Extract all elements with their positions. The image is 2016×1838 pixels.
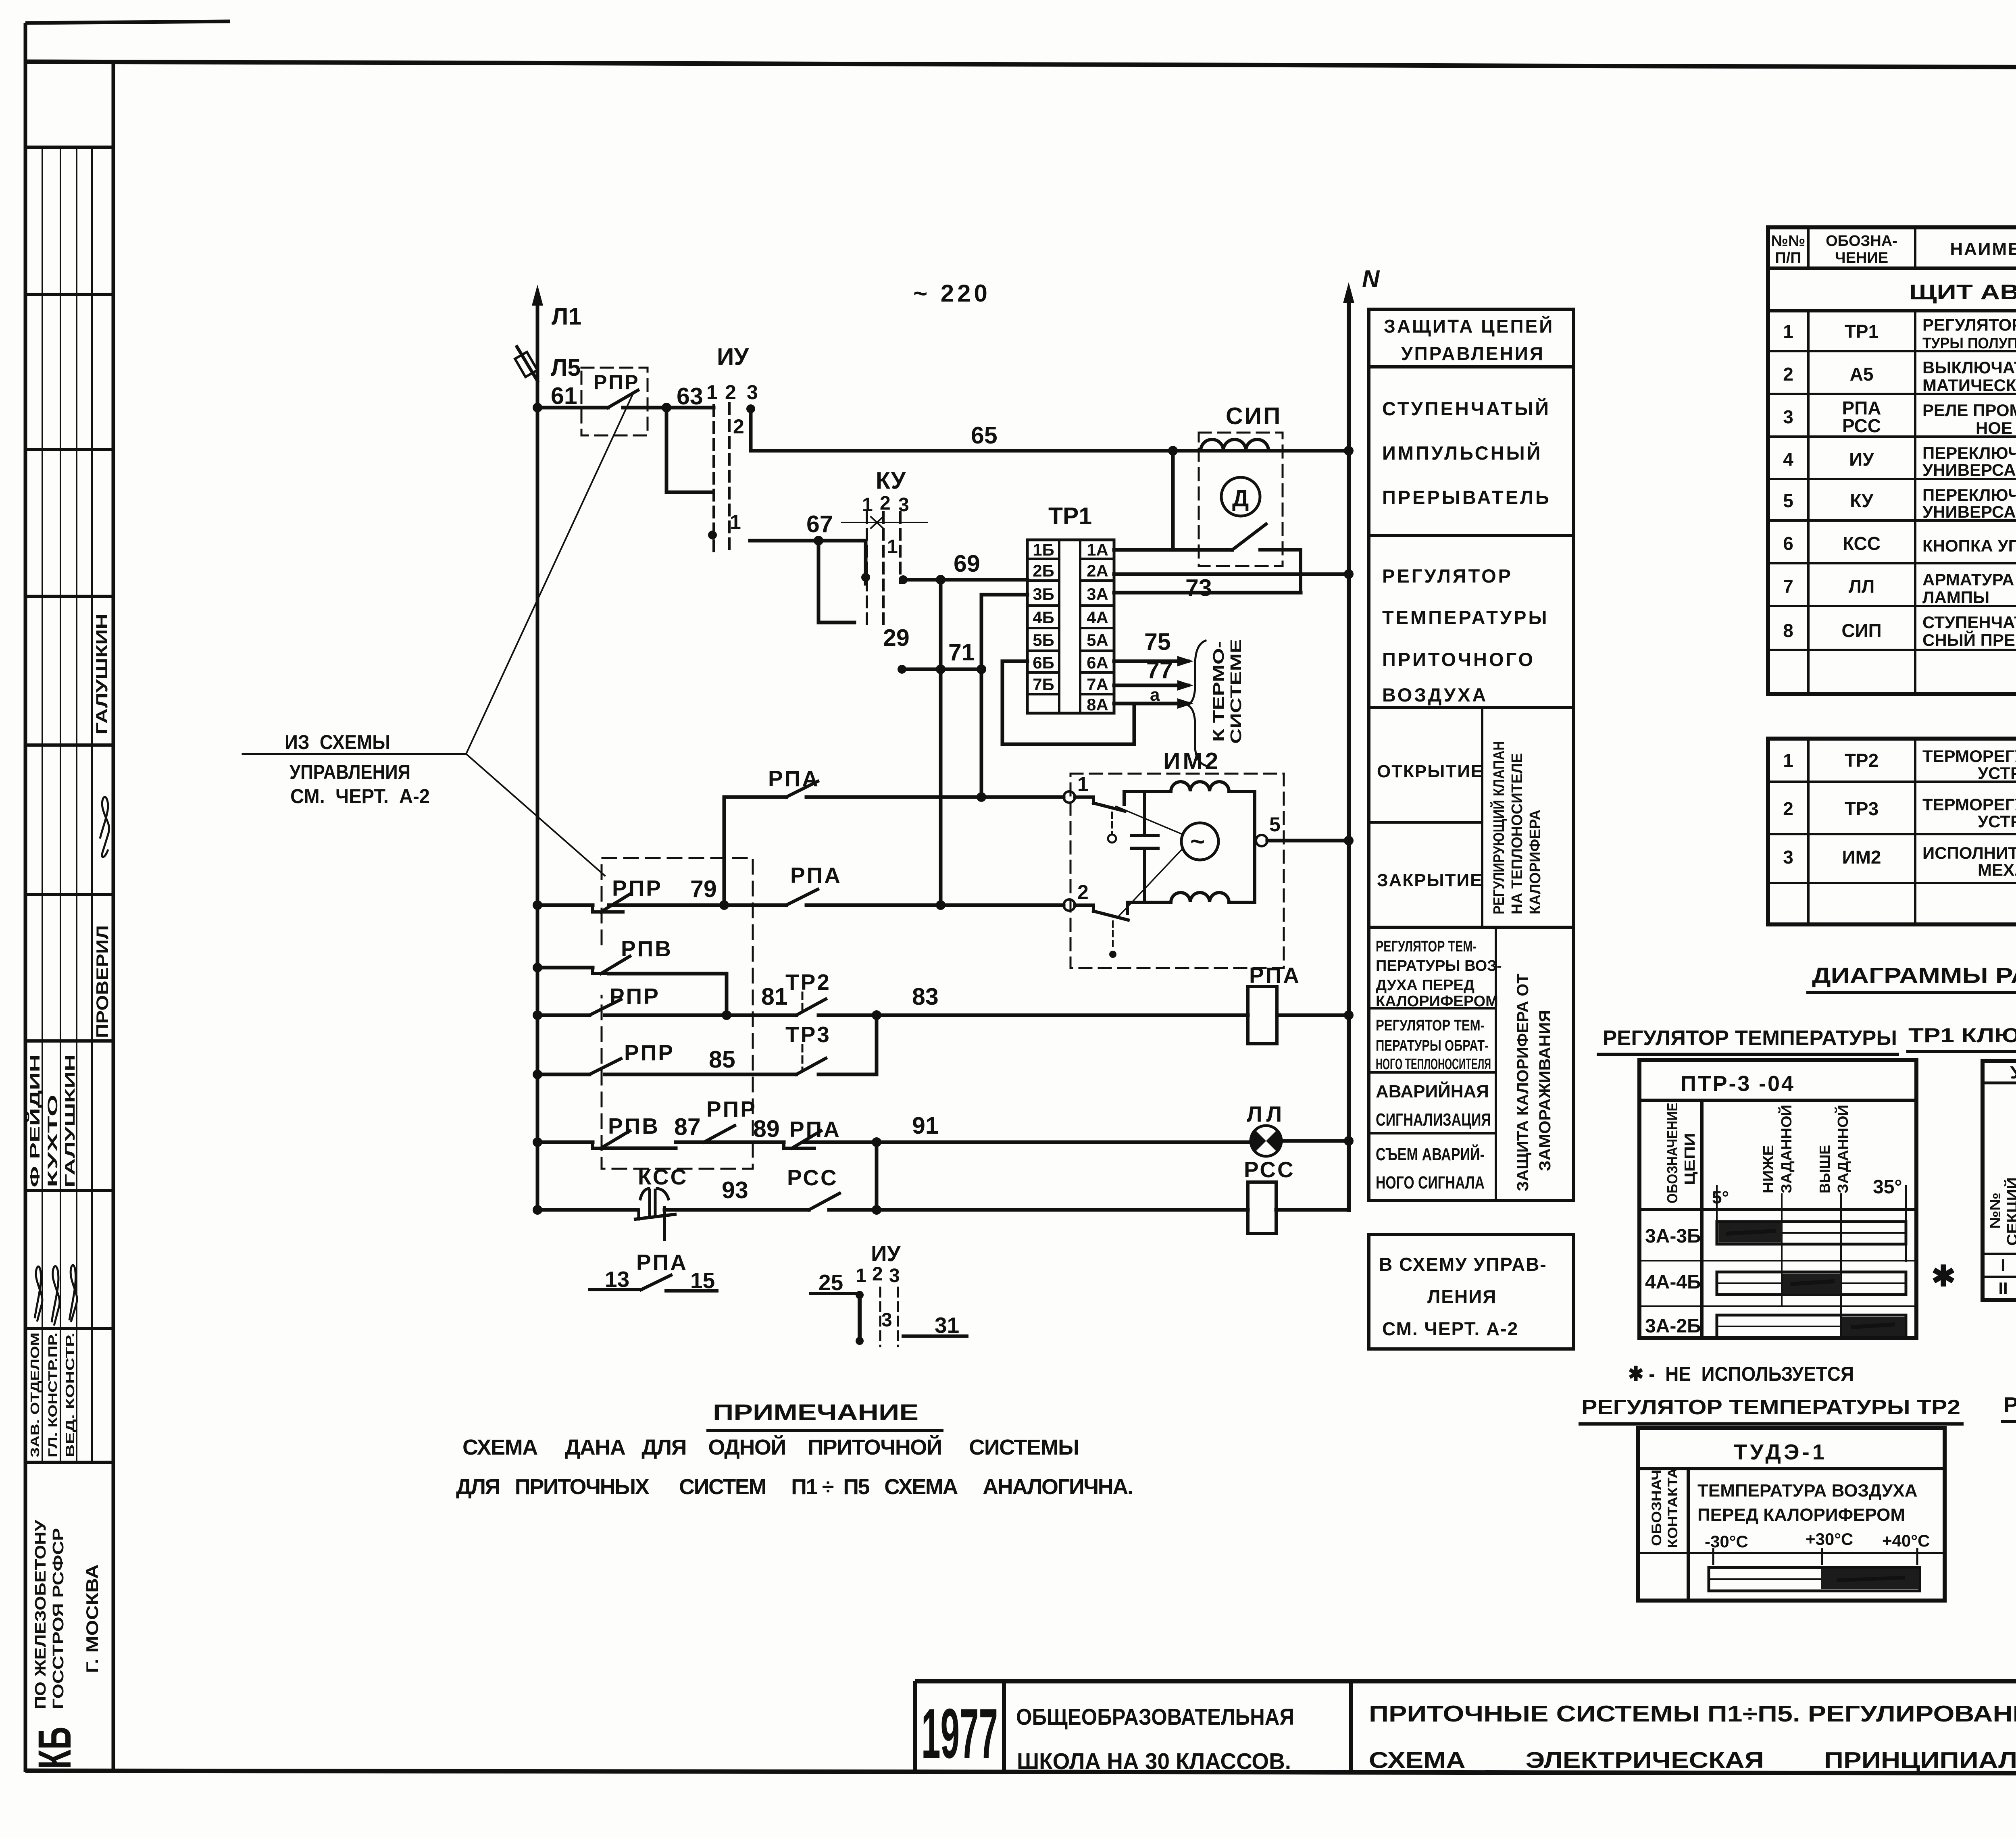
branch row1-row2 [723, 797, 726, 905]
svg-text:3: 3 [747, 381, 758, 404]
svg-text:65: 65 [971, 422, 998, 449]
svg-text:ИСПОЛНИТЕЛЬНЫЙ: ИСПОЛНИТЕЛЬНЫЙ [1922, 843, 2016, 862]
svg-text:ПО ЖЕЛЕЗОБЕТОНУ: ПО ЖЕЛЕЗОБЕТОНУ [32, 1520, 49, 1709]
heading regulator TR3 [2001, 1393, 2016, 1422]
local table row IM2 [1783, 840, 2016, 887]
svg-text:ЧЕНИЕ: ЧЕНИЕ [1835, 250, 1888, 266]
svg-text:РЕЛЕ ПРОМЕЖУТОЧ-: РЕЛЕ ПРОМЕЖУТОЧ- [1922, 401, 2016, 420]
svg-text:ЛЛ: ЛЛ [1849, 576, 1875, 597]
svg-text:КУ: КУ [1850, 490, 1874, 511]
svg-text:ШКОЛА НА 30 КЛАССОВ.: ШКОЛА НА 30 КЛАССОВ. [1017, 1748, 1291, 1774]
wire 69 [903, 578, 1027, 582]
svg-text:ГЛ. КОНСТР.ПР.: ГЛ. КОНСТР.ПР. [46, 1332, 60, 1457]
svg-text:РПВ: РПВ [608, 1114, 660, 1139]
svg-text:5°: 5° [1712, 1188, 1729, 1207]
local table grid [1768, 739, 2016, 924]
svg-text:К ТЕРМО-: К ТЕРМО- [1210, 641, 1227, 742]
svg-text:РПА: РПА [636, 1250, 688, 1275]
TR2 bar [1709, 1567, 1920, 1591]
svg-text:ПЕРАТУРЫ ОБРАТ-: ПЕРАТУРЫ ОБРАТ- [1376, 1037, 1489, 1054]
function box: valve open/close [1369, 708, 1574, 927]
svg-text:ЗАМОРАЖИВАНИЯ: ЗАМОРАЖИВАНИЯ [1536, 1010, 1554, 1171]
svg-text:7А: 7А [1087, 675, 1108, 694]
svg-text:ТР3: ТР3 [1845, 798, 1879, 819]
svg-text:I: I [2001, 1255, 2006, 1274]
function box: to control diagram [1369, 1234, 1574, 1349]
svg-text:ТЕМПЕРАТУРЫ: ТЕМПЕРАТУРЫ [1382, 607, 1549, 628]
svg-text:УПРАВЛЕНИЯ: УПРАВЛЕНИЯ [1401, 343, 1545, 364]
svg-text:ПРИТОЧНЫЕ СИСТЕМЫ П1÷П5. Р: ПРИТОЧНЫЕ СИСТЕМЫ П1÷П5. РЕГУЛИРОВАНИЕ. [1369, 1701, 2016, 1727]
function box: step impulse interrupter [1369, 367, 1574, 535]
branch row4-row5 [875, 1015, 879, 1074]
svg-text:1: 1 [887, 536, 898, 558]
wire jog down to IU pin1 lower [666, 408, 712, 492]
contact RPA row2 [786, 863, 842, 905]
wire 3B branch [981, 595, 1027, 797]
svg-text:НОГО ТЕПЛОНОСИТЕЛЯ: НОГО ТЕПЛОНОСИТЕЛЯ [1376, 1056, 1491, 1073]
svg-text:МАТИЧЕСКИЙ: МАТИЧЕСКИЙ [1922, 375, 2016, 395]
svg-text:75: 75 [1144, 629, 1171, 655]
svg-text:ВЫКЛЮЧАТЕЛЬ АВТО-: ВЫКЛЮЧАТЕЛЬ АВТО- [1922, 358, 2016, 377]
stamp column grid [25, 62, 113, 1771]
svg-text:КНОПКА УПРАВЛЕНИЯ: КНОПКА УПРАВЛЕНИЯ [1922, 536, 2016, 555]
svg-text:+30°С: +30°С [1806, 1530, 1853, 1549]
svg-text:СЪЕМ АВАРИЙ-: СЪЕМ АВАРИЙ- [1376, 1144, 1485, 1164]
svg-text:РПА: РПА [1249, 963, 1301, 988]
svg-text:ЗАДАННОЙ: ЗАДАННОЙ [1778, 1105, 1795, 1193]
wire IM2 pin5 to N [1267, 839, 1349, 843]
svg-text:КУ: КУ [876, 467, 906, 494]
svg-text:РПР: РПР [594, 371, 640, 393]
svg-text:1: 1 [1783, 750, 1793, 771]
svg-text:6Б: 6Б [1033, 653, 1054, 672]
svg-text:ИМПУЛЬСНЫЙ: ИМПУЛЬСНЫЙ [1382, 442, 1542, 464]
svg-text:93: 93 [722, 1177, 748, 1203]
svg-text:1: 1 [730, 511, 741, 533]
relay contact RPR (dashed box) [581, 368, 666, 435]
wire row4 [537, 1014, 1248, 1017]
IM2 linkage lines [1116, 806, 1183, 916]
IU dashed contact line 2 [728, 403, 731, 552]
svg-text:ИМ2: ИМ2 [1163, 748, 1220, 774]
contact RPA row1 [768, 766, 820, 797]
svg-text:СХЕМА ДАНА ДЛЯ ОДНОЙ: СХЕМА ДАНА ДЛЯ ОДНОЙ ПРИТОЧНОЙ СИСТЕМЫ [462, 1435, 1079, 1459]
svg-text:ВЕД. КОНСТР.: ВЕД. КОНСТР. [63, 1332, 77, 1457]
svg-text:5: 5 [1783, 490, 1793, 511]
svg-text:73: 73 [1185, 575, 1212, 601]
contact RSS row7 [787, 1165, 839, 1210]
svg-text:РЕГУЛЯТОР ТЕМПЕРАТУРЫ ТР2: РЕГУЛЯТОР ТЕМПЕРАТУРЫ ТР2 [1581, 1396, 1960, 1419]
IM2 upper contact dashed stem [1108, 812, 1116, 843]
signal lamp LL [1247, 1101, 1354, 1156]
svg-text:ЗАКРЫТИЕ: ЗАКРЫТИЕ [1377, 870, 1483, 890]
svg-text:Л5: Л5 [551, 354, 581, 381]
contact RPR row4 [589, 984, 660, 1015]
svg-text:15: 15 [690, 1268, 715, 1293]
svg-text:АРМАТУРА СИГНАЛЬНОЙ: АРМАТУРА СИГНАЛЬНОЙ [1922, 570, 2016, 589]
SIP motor circle D [1221, 477, 1260, 516]
wire 71 [902, 668, 981, 671]
svg-text:ИУ: ИУ [1849, 449, 1874, 470]
TR1 pin labels A column [1087, 540, 1108, 714]
table rows names [1922, 315, 2016, 649]
wire 3A [1114, 591, 1301, 595]
svg-text:2Б: 2Б [1033, 561, 1054, 580]
svg-text:3: 3 [889, 1265, 900, 1286]
contact RPA row6 [784, 1117, 841, 1148]
svg-text:РПР: РПР [706, 1097, 757, 1122]
svg-text:РПА: РПА [790, 863, 842, 888]
svg-text:Л1: Л1 [552, 303, 581, 330]
KU jog path [818, 541, 854, 622]
svg-text:4: 4 [1783, 449, 1793, 470]
wire row6 [537, 1142, 1252, 1148]
svg-text:ПРЕРЫВАТЕЛЬ: ПРЕРЫВАТЕЛЬ [1382, 487, 1551, 508]
stamp signature upper [100, 797, 109, 857]
svg-text:А5: А5 [1850, 364, 1874, 385]
svg-text:35°: 35° [1873, 1176, 1902, 1198]
svg-text:ПЕРАТУРЫ ВОЗ-: ПЕРАТУРЫ ВОЗ- [1376, 958, 1502, 974]
svg-text:ГАЛУШКИН: ГАЛУШКИН [93, 614, 111, 735]
svg-text:КУХТО: КУХТО [45, 1095, 60, 1187]
svg-text:ТР1: ТР1 [1048, 503, 1092, 529]
svg-text:УП 5311- А225: УП 5311- А225 [2010, 1063, 2016, 1082]
svg-text:7: 7 [1783, 576, 1793, 597]
svg-text:ГАЛУШКИН: ГАЛУШКИН [62, 1054, 78, 1187]
svg-text:1: 1 [856, 1265, 866, 1286]
svg-text:ПРИТОЧНОГО: ПРИТОЧНОГО [1382, 649, 1535, 670]
annotation iz shemy [243, 392, 634, 876]
function box: protection of control circuits [1369, 309, 1574, 367]
svg-text:РСС: РСС [1842, 415, 1881, 436]
IM2 motor [1181, 823, 1218, 860]
svg-text:N: N [1362, 265, 1380, 292]
breaker A5 on bus [515, 347, 537, 381]
svg-text:-30°С: -30°С [1705, 1532, 1748, 1551]
svg-text:ТЕРМОРЕГУЛИРУЮЩЕЕ: ТЕРМОРЕГУЛИРУЮЩЕЕ [1922, 795, 2016, 814]
svg-text:УПРАВЛЕНИЯ: УПРАВЛЕНИЯ [289, 761, 410, 783]
svg-text:ЗАЩИТА КАЛОРИФЕРА ОТ: ЗАЩИТА КАЛОРИФЕРА ОТ [1514, 974, 1532, 1191]
TR1 pin labels B column [1033, 540, 1054, 694]
svg-text:8: 8 [1783, 620, 1793, 641]
relay coil RSS [1244, 1157, 1349, 1234]
function box: freeze protection group [1369, 927, 1574, 1201]
pushbutton KSS [635, 1164, 688, 1239]
svg-text:ИЗ СХЕМЫ: ИЗ СХЕМЫ [285, 731, 390, 754]
svg-text:4А-4Б: 4А-4Б [1645, 1272, 1701, 1293]
svg-text:КАЛОРИФЕРА: КАЛОРИФЕРА [1527, 810, 1544, 914]
svg-text:НОГО СИГНАЛА: НОГО СИГНАЛА [1376, 1173, 1485, 1193]
paper edge line top-left [25, 21, 230, 23]
svg-text:РЕГУЛЯТОР ТЕМПЕРАТУРЫ ТР3: РЕГУЛЯТОР ТЕМПЕРАТУРЫ ТР3 [2004, 1393, 2016, 1417]
PTR bar row1 [1717, 1222, 1906, 1244]
IU dashed contact line 1 [712, 405, 715, 552]
svg-text:ТЕРМОРЕГУЛИРУЮЩЕЕ: ТЕРМОРЕГУЛИРУЮЩЕЕ [1922, 747, 2016, 766]
svg-text:25: 25 [818, 1270, 843, 1295]
IM2 lower contact dashed stem [1109, 921, 1116, 958]
svg-text:Д: Д [1232, 485, 1249, 512]
svg-text:ОБЩЕОБРАЗОВАТЕЛЬНАЯ: ОБЩЕОБРАЗОВАТЕЛЬНАЯ [1016, 1704, 1294, 1730]
svg-text:ДЛЯ ПРИТОЧНЫХ СИСТЕМ: ДЛЯ ПРИТОЧНЫХ СИСТЕМ П1 ÷ П5 СХЕМА АНАЛО… [456, 1475, 1133, 1499]
stamp signature row 3 [69, 1265, 77, 1322]
wire row5 [537, 1073, 877, 1076]
svg-text:РПР: РПР [624, 1040, 675, 1065]
svg-text:69: 69 [954, 550, 980, 577]
contact RPR row6 [704, 1097, 757, 1142]
IM2 pin 2 [1064, 881, 1089, 911]
branch row6-row7 [875, 1142, 879, 1210]
svg-text:ДИАГРАММЫ РАБОТЫ КОНТАКТОВ: ДИАГРАММЫ РАБОТЫ КОНТАКТОВ [1812, 964, 2016, 988]
svg-text:ЛАМПЫ: ЛАМПЫ [1922, 588, 1989, 607]
svg-text:ВЫШЕ: ВЫШЕ [1816, 1145, 1833, 1193]
svg-text:ЛЛ: ЛЛ [1247, 1101, 1286, 1126]
terminal block TR1 [1027, 540, 1114, 713]
relay coil RPA [1248, 963, 1354, 1044]
svg-text:НИЖЕ: НИЖЕ [1760, 1145, 1776, 1193]
svg-text:РПА: РПА [768, 766, 820, 791]
svg-text:РСС: РСС [1244, 1157, 1295, 1182]
wire 75 with arrow [1114, 629, 1193, 666]
stamp signature row 1 [35, 1266, 42, 1322]
actuator IM2 dashed box [1070, 774, 1284, 968]
junction wire65 at N bus [1344, 446, 1354, 456]
contact RPR row5 [589, 1040, 675, 1074]
svg-text:СИП: СИП [1841, 620, 1881, 641]
svg-text:ТУРЫ ПОЛУПРОВОДНИКОВЫЙ: ТУРЫ ПОЛУПРОВОДНИКОВЫЙ [1922, 334, 2016, 352]
svg-text:5: 5 [1269, 813, 1281, 836]
IM2 pin 1 [1064, 773, 1089, 803]
svg-text:ЩИТ АВТОМАТИЗАЦИИ: ЩИТ АВТОМАТИЗАЦИИ [1909, 281, 2016, 304]
wire 6B loop to 8A [1002, 661, 1134, 744]
svg-text:СИГНАЛИЗАЦИЯ: СИГНАЛИЗАЦИЯ [1376, 1110, 1491, 1130]
svg-text:ЗАВ. ОТДЕЛОМ: ЗАВ. ОТДЕЛОМ [28, 1332, 42, 1457]
svg-text:РЕГУЛЯТОР ТЕМПЕРА-: РЕГУЛЯТОР ТЕМПЕРА- [1922, 315, 2016, 334]
branch down to SIP contact [1171, 451, 1175, 550]
svg-text:3А-2Б: 3А-2Б [1645, 1316, 1701, 1337]
IU contact dot [708, 531, 717, 539]
frame left border [24, 23, 27, 1772]
svg-text:УНИВЕРСАЛЬНЫЙ: УНИВЕРСАЛЬНЫЙ [1922, 460, 2016, 479]
PTR bar row3 [1717, 1315, 1906, 1338]
svg-text:ПЕРЕД КАЛОРИФЕРОМ: ПЕРЕД КАЛОРИФЕРОМ [1697, 1505, 1905, 1525]
svg-text:89: 89 [753, 1116, 780, 1142]
interrupter SIP dashed box [1199, 433, 1283, 566]
svg-text:63: 63 [677, 383, 703, 410]
svg-text:77: 77 [1146, 657, 1173, 683]
svg-text:ТР2: ТР2 [785, 970, 831, 995]
svg-text:ВОЗДУХА: ВОЗДУХА [1382, 684, 1488, 706]
svg-text:СХЕМА ЭЛЕКТРИЧЕСКАЯ: СХЕМА ЭЛЕКТРИЧЕСКАЯ ПРИНЦИПИАЛЬНАЯ. [1369, 1747, 2016, 1773]
svg-text:ТР1 КЛЮЧ УПРАВЛЕНИЯ КУ: ТР1 КЛЮЧ УПРАВЛЕНИЯ КУ [1908, 1024, 2016, 1047]
svg-text:УНИВЕРСАЛЬНЫЙ: УНИВЕРСАЛЬНЫЙ [1922, 502, 2016, 521]
svg-text:СИСТЕМЕ: СИСТЕМЕ [1228, 639, 1245, 744]
PTR bar row2 [1717, 1272, 1906, 1295]
svg-text:ОТКРЫТИЕ: ОТКРЫТИЕ [1377, 762, 1483, 781]
svg-text:ЗАЩИТА ЦЕПЕЙ: ЗАЩИТА ЦЕПЕЙ [1384, 316, 1554, 337]
svg-text:ЦЕПИ: ЦЕПИ [1681, 1133, 1698, 1185]
wire row3 [537, 968, 727, 1015]
svg-text:2: 2 [1783, 364, 1793, 385]
svg-text:Ф РЕЙДИН: Ф РЕЙДИН [27, 1054, 43, 1187]
svg-text:6: 6 [1783, 533, 1793, 554]
component table grid [1768, 227, 2016, 694]
wire row1 to pin1 [724, 795, 1064, 799]
KU dashed contact lines [866, 512, 868, 629]
local table row TR2 [1783, 747, 2016, 783]
junction on bus [533, 403, 542, 412]
svg-text:4А: 4А [1087, 608, 1108, 627]
wire 65 [751, 449, 1349, 453]
IM2 pin 5 [1256, 813, 1281, 846]
svg-text:3: 3 [1783, 847, 1793, 868]
svg-text:+40°С: +40°С [1882, 1531, 1930, 1550]
regulator PTR-3-04 table [1628, 1060, 1956, 1385]
svg-text:СЕКЦИЙ: СЕКЦИЙ [2004, 1177, 2016, 1246]
brace to thermal system [1188, 641, 1206, 766]
svg-text:ПЕРЕКЛЮЧАТЕЛЬ,: ПЕРЕКЛЮЧАТЕЛЬ, [1922, 485, 2016, 504]
svg-text:85: 85 [709, 1046, 735, 1073]
svg-text:СТУПЕНЧАТЫЙ ИМПУЛЬ-: СТУПЕНЧАТЫЙ ИМПУЛЬ- [1922, 612, 2016, 632]
SIP coil [1201, 439, 1268, 451]
svg-text:4Б: 4Б [1033, 608, 1054, 627]
svg-text:СИП: СИП [1226, 403, 1282, 429]
junction to SIP branch [1168, 446, 1178, 456]
svg-text:ТЕМПЕРАТУРА ВОЗДУХА: ТЕМПЕРАТУРА ВОЗДУХА [1697, 1481, 1918, 1501]
contact TR2 row4 [785, 970, 831, 1015]
svg-text:31: 31 [935, 1313, 959, 1338]
IM2 lower winding [1127, 841, 1255, 902]
svg-text:3: 3 [1783, 406, 1793, 427]
svg-text:87: 87 [674, 1114, 701, 1140]
svg-text:СТУПЕНЧАТЫЙ: СТУПЕНЧАТЫЙ [1382, 398, 1551, 419]
svg-text:29: 29 [883, 624, 910, 651]
svg-text:1Б: 1Б [1033, 540, 1054, 559]
svg-text:КСС: КСС [1843, 533, 1881, 554]
svg-text:1: 1 [1783, 321, 1793, 342]
SIP contact blade [1232, 524, 1301, 593]
contact RPV row6 [593, 1114, 660, 1148]
IM2 upper winding [1124, 782, 1255, 841]
svg-text:РЕГУЛЯТОР: РЕГУЛЯТОР [1382, 565, 1513, 587]
contact RPV row3 [593, 936, 673, 974]
svg-text:2: 2 [872, 1263, 883, 1285]
svg-text:2: 2 [733, 415, 744, 438]
svg-text:ЗАДАННОЙ: ЗАДАННОЙ [1834, 1105, 1851, 1193]
svg-text:МЕХАНИЗМ: МЕХАНИЗМ [1978, 860, 2016, 879]
svg-text:П/П: П/П [1775, 250, 1801, 266]
svg-text:✱ - НЕ ИСПОЛЬЗУЕТСЯ: ✱ - НЕ ИСПОЛЬЗУЕТСЯ [1628, 1363, 1854, 1385]
svg-text:3Б: 3Б [1033, 585, 1054, 604]
svg-text:1: 1 [706, 381, 718, 404]
svg-text:3А: 3А [1087, 585, 1108, 604]
key KU table UP5311-A225 [1983, 1061, 2016, 1300]
branch vertical from 69 to row2 [939, 580, 943, 905]
junction on 67 [814, 536, 823, 545]
svg-text:РЕГУЛЯТОР ТЕМ-: РЕГУЛЯТОР ТЕМ- [1376, 938, 1477, 955]
svg-text:71: 71 [948, 639, 975, 666]
svg-text:67: 67 [806, 511, 833, 537]
svg-text:№№: №№ [1987, 1193, 2003, 1229]
svg-text:КОНТАКТА: КОНТАКТА [1665, 1467, 1681, 1548]
wire bus to RPR [537, 406, 608, 410]
stamp signature row 2 [52, 1266, 60, 1326]
svg-text:2: 2 [1783, 798, 1793, 819]
svg-text:2: 2 [725, 381, 736, 404]
wire row7 [537, 1208, 1248, 1212]
wire a with arrow [1114, 685, 1193, 709]
dashed group box RPR/RPV [602, 858, 753, 1169]
svg-text:83: 83 [912, 983, 939, 1010]
svg-text:КБ: КБ [29, 1727, 81, 1769]
svg-text:1: 1 [1077, 773, 1089, 795]
wire 67 [750, 539, 866, 543]
svg-text:ТР1: ТР1 [1845, 321, 1879, 342]
frame top border [24, 62, 2016, 69]
local table row TR3 [1783, 795, 2016, 831]
svg-text:6А: 6А [1087, 653, 1108, 672]
IU pin3 terminal [746, 404, 755, 451]
svg-text:91: 91 [912, 1112, 939, 1139]
heading regulator TR2 [1579, 1396, 1964, 1424]
svg-text:7Б: 7Б [1033, 675, 1054, 694]
bus L1 [536, 298, 539, 1210]
svg-text:ИМ2: ИМ2 [1842, 847, 1881, 868]
svg-text:АВАРИЙНАЯ: АВАРИЙНАЯ [1376, 1081, 1489, 1101]
frame bottom border [25, 1771, 2016, 1774]
svg-text:3: 3 [881, 1309, 892, 1331]
function box: supply air temperature regulator [1369, 535, 1574, 708]
svg-text:РПР: РПР [610, 984, 660, 1009]
note heading [706, 1399, 943, 1430]
junction node 63 [662, 403, 671, 412]
contact RPR row2 [593, 876, 662, 912]
svg-text:КАЛОРИФЕРОМ: КАЛОРИФЕРОМ [1376, 993, 1498, 1010]
IM2 lower contact [1075, 902, 1128, 920]
svg-text:ИУ: ИУ [871, 1241, 901, 1266]
svg-text:ОБОЗНАЧЕНИЕ: ОБОЗНАЧЕНИЕ [1664, 1103, 1681, 1203]
svg-text:УСТРОЙСТВО: УСТРОЙСТВО [1978, 763, 2016, 783]
wire 2A to N [1114, 572, 1349, 576]
KU contact dot [861, 573, 870, 582]
wire row2 [537, 903, 1064, 907]
svg-text:5А: 5А [1087, 631, 1108, 649]
wire 63 to IU [666, 406, 714, 410]
svg-text:2: 2 [880, 493, 891, 514]
svg-text:ОБОЗНАЧ: ОБОЗНАЧ [1649, 1470, 1664, 1546]
wire 77 with arrow [1114, 657, 1193, 691]
svg-text:13: 13 [605, 1267, 629, 1292]
svg-text:ЛЕНИЯ: ЛЕНИЯ [1427, 1286, 1497, 1307]
svg-text:✱: ✱ [1931, 1260, 1956, 1293]
svg-text:1А: 1А [1087, 540, 1108, 559]
table header texts [1771, 232, 2016, 266]
svg-text:УСТРОЙСТВО: УСТРОЙСТВО [1978, 812, 2016, 831]
svg-text:СНЫЙ ПРЕРЫВАТЕЛЬ: СНЫЙ ПРЕРЫВАТЕЛЬ [1922, 630, 2016, 649]
heading contact diagrams [1806, 964, 2016, 993]
svg-text:3А-3Б: 3А-3Б [1645, 1226, 1701, 1247]
bus N [1343, 265, 1380, 1210]
svg-text:СМ. ЧЕРТ. А-2: СМ. ЧЕРТ. А-2 [1382, 1318, 1518, 1339]
svg-text:61: 61 [551, 383, 577, 409]
svg-text:ПЕРЕКЛЮЧАТЕЛЬ,: ПЕРЕКЛЮЧАТЕЛЬ, [1922, 443, 2016, 462]
svg-text:РЕГУЛИРУЮЩИЙ КЛАПАН: РЕГУЛИРУЮЩИЙ КЛАПАН [1489, 741, 1508, 914]
svg-text:В СХЕМУ УПРАВ-: В СХЕМУ УПРАВ- [1379, 1254, 1547, 1275]
svg-text:2: 2 [1077, 881, 1089, 903]
svg-text:ТР2: ТР2 [1845, 750, 1879, 771]
svg-text:~: ~ [1190, 828, 1205, 856]
svg-text:II: II [1998, 1279, 2008, 1298]
svg-text:НА ТЕПЛОНОСИТЕЛЕ: НА ТЕПЛОНОСИТЕЛЕ [1509, 753, 1526, 914]
